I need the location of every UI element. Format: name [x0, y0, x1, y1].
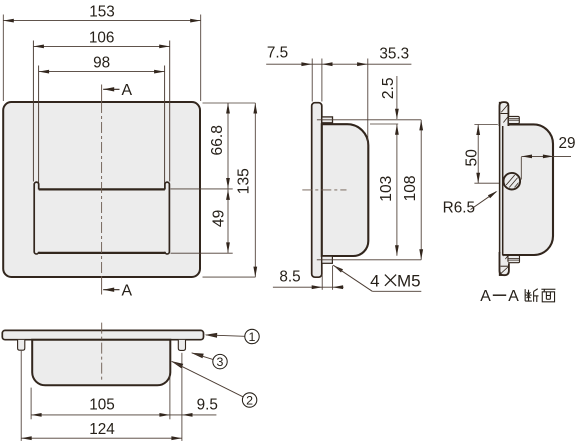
section view: grip bead circle — [504, 173, 521, 190]
svg-text:153: 153 — [89, 4, 115, 21]
front view: grip hook right — [165, 182, 170, 254]
ext line plate top right — [203, 102, 256, 104]
svg-text:49: 49 — [211, 210, 228, 227]
dim 35.3 right arrow — [357, 62, 368, 66]
front view: grip bar bottom edge — [39, 252, 165, 254]
svg-text:108: 108 — [402, 175, 419, 201]
front view: section arrow A top — [103, 87, 114, 91]
dim 153 extension line right — [200, 15, 202, 102]
dim 98 line — [39, 71, 165, 73]
front view: section line lower segment — [101, 277, 103, 295]
dim 153 line — [3, 20, 200, 22]
dim 135 line — [254, 103, 256, 277]
svg-text:35.3: 35.3 — [379, 46, 409, 63]
front view: recess outer edge right (106 width) + extension line — [169, 41, 171, 182]
front view: grip bar top edge — [39, 188, 165, 190]
side view: flange plate — [312, 103, 322, 278]
side view: bottom hole centerline / extension — [317, 259, 421, 261]
ext line bowl top right — [370, 123, 398, 125]
ext line 124 left — [20, 351, 22, 441]
front view: recess outer edge left (106 width) + extension line — [32, 41, 34, 182]
dim 7.5/35.3 line — [266, 63, 411, 65]
side view: horizontal centerline (dash-dot) — [302, 189, 346, 191]
ext line flange right top — [321, 59, 323, 102]
dim 7.5 right / 35.3 left arrow (outside) — [322, 62, 333, 66]
dim 153 extension line left — [2, 15, 4, 102]
svg-text:135: 135 — [236, 168, 253, 194]
dim 29 line — [521, 155, 571, 157]
front view: recess inner edge left (98 width) + extension line — [38, 66, 40, 190]
ext line 50 bottom — [474, 182, 499, 184]
dim 103 line — [396, 124, 398, 256]
bottom view: right screw lug — [178, 340, 185, 351]
side view: top mounting lip — [322, 117, 333, 123]
svg-text:M5: M5 — [397, 272, 421, 291]
svg-text:A: A — [122, 82, 133, 99]
callout 2 leader — [171, 361, 183, 368]
side view: bowl body — [322, 124, 369, 256]
svg-text:9.5: 9.5 — [197, 397, 218, 414]
bottom view: bowl from behind — [32, 340, 170, 386]
svg-text:3: 3 — [217, 355, 224, 369]
bottom view: plate edge-on — [2, 330, 203, 339]
svg-text:A: A — [122, 283, 133, 300]
callout 2 circle — [242, 393, 256, 407]
dim 7.5 left arrow (outside) — [301, 62, 312, 66]
front view: grip hook left — [34, 182, 39, 254]
callout 1 circle — [245, 329, 259, 343]
dim 66.8 line — [227, 103, 229, 189]
svg-text:98: 98 — [93, 54, 110, 71]
ext line 124 right / 9.5 right — [181, 353, 183, 441]
ext line 8.5 right — [332, 266, 334, 290]
front view: plate outline — [3, 102, 200, 277]
dim 2.5 line+arrow — [396, 76, 398, 119]
ext line 50 top — [474, 124, 497, 126]
ext line 8.5 left — [321, 267, 323, 290]
svg-text:106: 106 — [89, 29, 115, 46]
callout 1 leader — [205, 333, 218, 338]
svg-text:50: 50 — [463, 149, 480, 167]
ext line 105 left — [30, 388, 32, 420]
ext line grip bar right — [171, 188, 233, 190]
svg-text:66.8: 66.8 — [209, 125, 226, 155]
svg-text:1: 1 — [249, 330, 256, 344]
front view: section line upper segment — [101, 85, 103, 103]
dim 106 line — [33, 45, 169, 47]
ext line bowl right top — [367, 59, 369, 148]
label 4xM5 leader arrow — [333, 265, 343, 272]
front view: vertical centerline (dash-dot) — [101, 102, 103, 277]
bottom view: vertical centerline (dash-dot) — [101, 323, 103, 381]
section view: top screw boss with M5 hole — [508, 116, 519, 123]
side view: bottom mounting lip — [322, 256, 333, 263]
label R6.5 leader — [471, 192, 497, 210]
side view: top hole centerline / extension — [317, 119, 421, 121]
bottom view: left screw lug — [18, 340, 25, 350]
callout 3 leader — [191, 353, 204, 359]
svg-text:8.5: 8.5 — [279, 268, 300, 285]
ext line 105 right — [169, 375, 171, 419]
ext line flange left top — [311, 59, 313, 102]
dim 108 line — [420, 120, 422, 260]
svg-text:2: 2 — [246, 393, 253, 407]
dim 50 line — [477, 125, 479, 184]
dim 8.5 line — [273, 286, 344, 288]
svg-text:7.5: 7.5 — [267, 45, 288, 62]
svg-text:103: 103 — [378, 176, 395, 202]
ext line 29 left — [520, 157, 522, 180]
front view: recess inner edge right (98 width) + extension line — [164, 66, 166, 190]
svg-text:4: 4 — [370, 272, 379, 291]
caption kanji 断 — [524, 289, 526, 301]
svg-text:A: A — [508, 288, 519, 305]
caption kanji 面 — [541, 288, 555, 290]
callout 3 circle — [213, 354, 227, 368]
dim 105 line — [31, 414, 170, 416]
section view: bottom screw boss with M5 hole — [508, 255, 520, 262]
svg-text:2.5: 2.5 — [380, 77, 397, 99]
section view: bottom curl — [500, 252, 509, 275]
svg-text:29: 29 — [558, 135, 575, 152]
svg-text:R6.5: R6.5 — [443, 200, 475, 217]
front view: section arrow A bottom — [103, 288, 114, 292]
svg-text:A: A — [480, 288, 491, 305]
dim 49 line — [227, 189, 229, 253]
ext line plate bottom right — [203, 276, 256, 278]
svg-text:105: 105 — [89, 396, 115, 413]
svg-text:124: 124 — [89, 421, 115, 438]
section view: top curl — [500, 102, 509, 126]
ext line recess bottom right — [171, 252, 233, 254]
section view: bowl body — [502, 124, 553, 255]
dim 9.5 line — [170, 414, 217, 416]
section view: flange plate cut — [500, 103, 503, 276]
dim 124 line — [21, 437, 182, 439]
